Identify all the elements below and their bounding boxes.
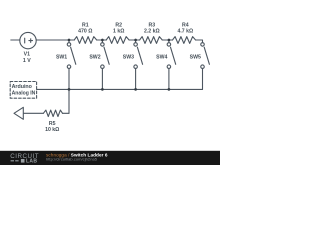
svg-text:V1: V1	[24, 52, 30, 58]
Arduino Analog IN box	[10, 82, 36, 99]
node dots on rail	[68, 39, 171, 91]
wire node A4	[162, 39, 172, 41]
switch SW5	[201, 43, 210, 90]
wire rail right corner to SW5	[196, 40, 203, 43]
switch SW2	[101, 40, 110, 89]
svg-text:2.2 kΩ: 2.2 kΩ	[144, 29, 160, 35]
wire left stub of V1	[11, 39, 20, 41]
ground	[14, 107, 23, 119]
svg-text:SW5: SW5	[190, 55, 201, 61]
svg-text:SW3: SW3	[123, 55, 134, 61]
svg-text:470 Ω: 470 Ω	[78, 29, 92, 35]
svg-text:1 kΩ: 1 kΩ	[113, 29, 124, 35]
svg-text:1 V: 1 V	[23, 58, 31, 64]
wire node A2	[97, 39, 107, 41]
wire R5 vertical	[68, 89, 70, 113]
resistor R3	[140, 37, 163, 44]
resistor R1	[74, 37, 97, 44]
switch SW4	[167, 40, 176, 89]
wire node A3	[129, 39, 140, 41]
wire R5 left lead	[24, 112, 44, 114]
resistor R2	[106, 37, 129, 44]
svg-text:LAB: LAB	[26, 159, 37, 165]
wire V1 to node A	[36, 39, 74, 41]
svg-text:SW1: SW1	[56, 55, 67, 61]
voltage source V1	[20, 32, 36, 48]
svg-text:10 kΩ: 10 kΩ	[45, 127, 59, 133]
switch SW3	[134, 40, 143, 89]
svg-text:SW2: SW2	[89, 55, 100, 61]
resistor R4	[173, 37, 196, 44]
svg-text:SW4: SW4	[156, 55, 167, 61]
switch SW1	[67, 40, 76, 89]
wire bottom bus	[37, 88, 203, 90]
svg-text:Arduino: Arduino	[12, 84, 33, 90]
wire R5 right lead	[63, 112, 70, 114]
resistor R5	[43, 110, 62, 116]
svg-text:http://circuitlab.com/cjh2na5: http://circuitlab.com/cjh2na5	[46, 157, 98, 162]
svg-text:4.7 kΩ: 4.7 kΩ	[177, 29, 193, 35]
node dots on bus	[68, 88, 71, 91]
footer bar	[0, 151, 220, 165]
CircuitLab logo	[10, 153, 39, 164]
svg-text:Analog IN: Analog IN	[12, 91, 36, 97]
